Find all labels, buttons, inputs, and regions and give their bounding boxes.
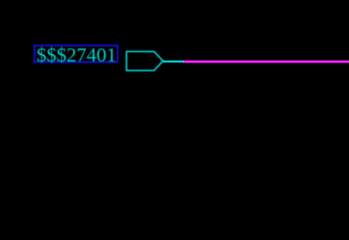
wire: magenta net segment to right edge (183, 60, 349, 64)
selection box around label (35, 46, 118, 63)
svg-text:$$$27401: $$$27401 (37, 44, 117, 66)
off-page connector flag (127, 52, 164, 71)
wire: cyan stub from connector tip (163, 60, 184, 63)
